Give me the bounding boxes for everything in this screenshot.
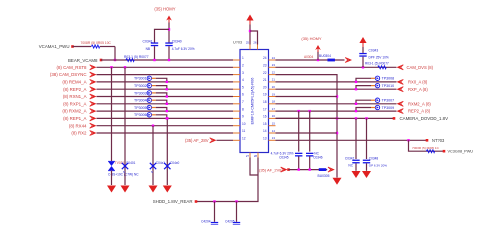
- wire C0402 vertical: [124, 67, 126, 185]
- svg-text:REP2_A (8): REP2_A (8): [408, 109, 431, 114]
- svg-text:15: 15: [272, 122, 276, 126]
- testpoint TP3002 label: [134, 84, 147, 88]
- wire power to top pins: [249, 25, 251, 45]
- wire C0347 vertical: [355, 118, 357, 159]
- U1903 part number (vertical): [251, 78, 255, 125]
- tvs TV0311 ref label: [115, 161, 126, 165]
- net stub dot BEAR_VCAM8: [100, 59, 103, 62]
- svg-text:TP3003: TP3003: [134, 91, 147, 95]
- wire RXM2_A to U1903 pin 8: [97, 110, 234, 112]
- resistor R0307: [378, 66, 386, 69]
- junction TP3006: [166, 117, 168, 119]
- junction TP3002: [166, 88, 168, 90]
- capacitor C0403 NC label: [151, 170, 153, 174]
- testpoint TP3009: [375, 105, 379, 109]
- svg-text:19: 19: [263, 93, 267, 97]
- wire C0347 to ground: [355, 163, 357, 170]
- wire AF_2V8 rail: [289, 169, 328, 171]
- testpoint TP3010: [375, 83, 379, 87]
- wire pin13 to NT: [276, 139, 428, 141]
- capacitor C0347: [352, 160, 359, 164]
- svg-text:(8) RX44: (8) RX44: [69, 123, 87, 128]
- port arrow REP2_A: [90, 87, 97, 92]
- port arrow RXM2_A: [397, 101, 404, 106]
- wire RXN1_A to U1903 pin 6: [97, 96, 234, 98]
- wire pin27 down: [250, 158, 258, 176]
- junction C0346 tap: [309, 110, 311, 112]
- svg-text:TP3009: TP3009: [382, 106, 395, 110]
- svg-text:4.7uF 6.3V 20%: 4.7uF 6.3V 20%: [172, 47, 195, 51]
- net label NT?03: [432, 138, 445, 143]
- svg-text:20: 20: [272, 85, 276, 89]
- port arrow REP2_A: [397, 108, 404, 113]
- wire C0348 to ground: [366, 163, 368, 170]
- ferrite BU0304 ref label red: [304, 55, 313, 59]
- testpoint TP3007 label: [382, 99, 395, 103]
- capacitor C0403 (NC, crossed): [150, 163, 156, 169]
- svg-text:(8) REP2_A: (8) REP2_A: [63, 87, 86, 92]
- wire TP3004 stub: [152, 99, 156, 101]
- capacitor C0346 ref label: [313, 156, 323, 160]
- junction TP3008: [355, 81, 357, 83]
- port label RX2: [71, 131, 87, 136]
- svg-text:VC3G08_PWU: VC3G08_PWU: [448, 150, 474, 154]
- junction TP3009: [355, 110, 357, 112]
- svg-text:9: 9: [242, 115, 244, 119]
- capacitor C4204 ref label: [201, 219, 211, 223]
- U1903 left pin stubs and numbers 1-12: [233, 56, 246, 140]
- wire pin row RXP_A: [276, 88, 397, 90]
- wire TP3007 stub: [371, 99, 375, 101]
- svg-text:C0345: C0345: [279, 156, 289, 160]
- svg-text:EMIF10-CM05FL2(A5)-R06: EMIF10-CM05FL2(A5)-R06: [251, 78, 255, 125]
- resistor R0302 value label: [124, 55, 149, 59]
- svg-text:C04x1: C04x1: [156, 161, 165, 165]
- port label RXN1_A: [63, 94, 87, 99]
- wire BEAR_VCAM8 rail: [101, 59, 233, 61]
- port arrow AF_2V8: [281, 167, 288, 172]
- svg-text:GP 6.3V 20%: GP 6.3V 20%: [369, 163, 387, 167]
- svg-text:(35) AF_28V: (35) AF_28V: [185, 138, 209, 143]
- wire R0301 to corner: [100, 46, 115, 48]
- junction C0404 tap: [166, 117, 168, 119]
- wire C0343 to rail: [362, 57, 364, 68]
- svg-text:BU0304: BU0304: [319, 54, 331, 58]
- net label BEAR_VCAM8: [68, 58, 98, 63]
- capacitor C0340 value label: [172, 47, 195, 51]
- svg-text:NT?03: NT?03: [432, 138, 445, 143]
- svg-text:C04x0: C04x0: [170, 161, 179, 165]
- op-amp U1903 body: [240, 50, 269, 153]
- svg-text:18: 18: [263, 100, 267, 104]
- wire TP3001 stub: [152, 77, 156, 79]
- svg-text:C0347: C0347: [345, 156, 355, 160]
- net label SHDD_1.8IV_REAR: [153, 199, 193, 204]
- wire CAM_RST8 to U1903 pin 2: [97, 66, 234, 68]
- testpoint TP3001 label: [134, 77, 147, 81]
- testpoint TP3010 label: [382, 84, 395, 88]
- capacitor C0348 value label: [369, 163, 387, 167]
- tvs TV0311 part label: [126, 161, 136, 165]
- wire RXP1_A to U1903 pin 7: [97, 103, 234, 105]
- port label CAM_DSYNC: [50, 72, 87, 77]
- port arrow CAM_RST8: [90, 65, 97, 70]
- svg-text:8: 8: [242, 107, 244, 111]
- wire TP3006 stub: [152, 114, 156, 116]
- port arrow RXP1_A: [90, 101, 97, 106]
- junction C0345 on AF rail: [298, 168, 300, 170]
- wire TP3003 stub: [152, 92, 156, 94]
- power arrow HOMY right: [315, 45, 321, 52]
- port label RXM2_A: [62, 109, 86, 114]
- svg-text:7003R (5) 0R05 1C: 7003R (5) 0R05 1C: [412, 146, 440, 150]
- wire TP3010 stub: [371, 85, 375, 87]
- capacitor C0343 value label: [369, 56, 389, 60]
- wire TP3004 hook: [156, 100, 167, 104]
- port arrow RXP_A: [397, 87, 404, 92]
- power flag (35) HOMY label: [154, 7, 175, 12]
- wire C0340 to rail: [168, 46, 170, 60]
- svg-text:7: 7: [242, 100, 244, 104]
- junction C0402 tap: [124, 66, 126, 68]
- junction pin14 on ground rail: [336, 132, 338, 134]
- svg-text:RXP_A (8): RXP_A (8): [408, 87, 428, 92]
- wire C0346 to AF rail: [309, 157, 311, 170]
- svg-text:10: 10: [242, 122, 246, 126]
- svg-text:RX0_A (8): RX0_A (8): [408, 80, 428, 85]
- testpoint TP3003 label: [134, 91, 147, 95]
- capacitor C0346: [306, 153, 313, 157]
- wire C0346 vertical: [309, 111, 311, 152]
- svg-text:28: 28: [254, 154, 258, 158]
- junction C0345 tap: [298, 110, 300, 112]
- resistor R0308 value label: [412, 146, 440, 150]
- port arrow CAM_DVS: [397, 65, 404, 70]
- capacitor C0340: [165, 42, 172, 46]
- wire pin row REP2_A: [276, 110, 397, 112]
- capacitor C0341 NC label: [146, 47, 150, 51]
- svg-text:22: 22: [263, 71, 267, 75]
- junction TP3003: [166, 95, 168, 97]
- junction TP3005: [166, 110, 168, 112]
- wire pin19 to ground rail: [276, 96, 338, 98]
- junction C0346 on AF rail: [309, 168, 311, 170]
- wire TP3008 hook: [356, 78, 371, 82]
- svg-text:6: 6: [242, 93, 244, 97]
- testpoint TP3005: [147, 105, 151, 109]
- capacitor C0346 NC label: [314, 151, 319, 155]
- junction pin19 on ground rail: [336, 95, 338, 97]
- capacitor C0341: [151, 42, 158, 46]
- svg-text:R03-1 (5) R0077: R03-1 (5) R0077: [124, 55, 149, 59]
- svg-text:BU0305: BU0305: [318, 174, 330, 178]
- svg-text:20: 20: [263, 85, 267, 89]
- capacitor C0348 ref label: [369, 156, 379, 160]
- port label REP2_A: [408, 109, 431, 114]
- port arrow RX0_A: [397, 79, 404, 84]
- svg-text:15: 15: [263, 122, 267, 126]
- wire pin15 DOVDD: [276, 117, 395, 119]
- wire pin14 to ground rail: [276, 132, 338, 134]
- tvs TV0311 value label: [108, 173, 139, 177]
- svg-text:C0348: C0348: [369, 156, 379, 160]
- junction top pin branch: [249, 30, 251, 32]
- wire pin row RX0_A: [276, 81, 397, 83]
- wire pin28 down to shield rail: [196, 158, 258, 202]
- capacitor C0341 ref label: [143, 40, 153, 44]
- capacitor C0345 value label: [271, 151, 294, 155]
- svg-text:(8) REP1_A: (8) REP1_A: [63, 116, 86, 121]
- wire C0404 vertical: [166, 118, 168, 185]
- capacitor C0343 ref label: [369, 48, 379, 52]
- svg-text:C0340: C0340: [172, 40, 182, 44]
- power arrow above C0343: [359, 37, 366, 47]
- svg-text:TP3006: TP3006: [134, 113, 147, 117]
- svg-text:C0346: C0346: [313, 156, 323, 160]
- svg-text:23: 23: [263, 64, 267, 68]
- svg-text:CAM_DVS (8): CAM_DVS (8): [407, 65, 434, 70]
- junction C0343: [362, 66, 364, 68]
- svg-text:4: 4: [242, 78, 244, 82]
- ferrite bead BU0304: [327, 59, 335, 62]
- svg-text:13: 13: [272, 136, 276, 140]
- testpoint TP3007: [375, 98, 379, 102]
- testpoint TP3008 label: [382, 77, 395, 81]
- resistor R0307 value label: [365, 62, 389, 66]
- junction C0348 tap: [365, 117, 367, 119]
- svg-text:(8) RXM2_A: (8) RXM2_A: [62, 109, 86, 114]
- wire pin16 to ground rail: [276, 117, 338, 119]
- wire TP3003 hook: [156, 93, 167, 97]
- svg-text:N: N: [123, 170, 125, 174]
- svg-text:16: 16: [272, 114, 276, 118]
- svg-text:DPF 25V 10%: DPF 25V 10%: [369, 56, 389, 60]
- wire VCAMA1_PWU to R0301: [73, 46, 92, 48]
- svg-text:11: 11: [242, 129, 246, 133]
- power label (35) HOMY right: [301, 36, 322, 41]
- testpoint TP3001: [147, 76, 151, 80]
- svg-text:27: 27: [246, 154, 250, 158]
- net label VC3G08_PWU: [448, 150, 474, 154]
- svg-text:TP3007: TP3007: [382, 99, 395, 103]
- capacitor C0404 (NC, crossed): [164, 163, 170, 169]
- svg-text:TP3002: TP3002: [134, 84, 147, 88]
- wire TP3009 hook: [356, 108, 371, 112]
- net label CAMERA_DOVDD_1.8V: [400, 116, 449, 121]
- wire C0343 to power: [362, 47, 364, 53]
- wire C0341 to rail: [154, 46, 156, 60]
- wire power arrow to junction: [168, 23, 170, 44]
- ferrite BU0304 label: [319, 54, 331, 58]
- port label REP1_A: [63, 116, 86, 121]
- wire pin22 to ground rail: [276, 75, 338, 178]
- junction TVS tap: [110, 66, 112, 68]
- port label CAM_DVS: [407, 65, 434, 70]
- wire pin24 to port: [276, 59, 345, 61]
- resistor R0308: [426, 150, 434, 153]
- svg-text:19: 19: [272, 92, 276, 96]
- capacitor C4205 ref label: [225, 219, 235, 223]
- junction C0340 on rail: [168, 59, 170, 61]
- testpoint TP3006 label: [134, 113, 147, 117]
- junction above C0340: [168, 28, 170, 30]
- net stub dot VC3G08_PWU: [443, 150, 446, 153]
- junction C0403 tap: [152, 125, 154, 127]
- port label RXP_A: [408, 87, 428, 92]
- ground under TV0311: [107, 186, 116, 193]
- capacitor C4205: [233, 222, 240, 226]
- svg-text:N: N: [151, 170, 153, 174]
- port label RXP1_A: [63, 101, 86, 106]
- resistor R0301: [91, 45, 99, 48]
- power arrow above U1903: [246, 15, 253, 25]
- svg-text:24: 24: [263, 56, 267, 60]
- port arrow pin24 out: [345, 57, 352, 62]
- junction C0347 tap: [355, 117, 357, 119]
- U1903 bottom pin stubs and numbers: [246, 153, 258, 158]
- svg-text:TP3005: TP3005: [134, 106, 147, 110]
- wire C0345 to AF rail: [298, 157, 300, 170]
- svg-text:(8) CAM_RST8: (8) CAM_RST8: [56, 65, 87, 70]
- port label (35) AF_2V8: [259, 167, 282, 172]
- svg-text:BEAR_VCAM8: BEAR_VCAM8: [68, 58, 98, 63]
- testpoint TP3004 label: [134, 99, 147, 103]
- capacitor C0343: [359, 53, 366, 57]
- capacitor C4204: [211, 222, 218, 226]
- net stub dot DOVDD: [393, 117, 396, 120]
- wire TVS vertical: [111, 67, 113, 161]
- capacitor C0402 (NC, crossed): [122, 163, 128, 169]
- port label RX0_A: [408, 80, 428, 85]
- svg-text:13: 13: [263, 137, 267, 141]
- port label (35) AF_28V: [185, 138, 209, 143]
- svg-text:24: 24: [272, 56, 276, 60]
- capacitor C0404 ref label: [170, 161, 179, 165]
- svg-text:NB: NB: [146, 47, 150, 51]
- U1903 ref label: [233, 41, 242, 45]
- wire TP3008 stub: [371, 77, 375, 79]
- U1903 top pin stubs and numbers: [246, 41, 258, 50]
- wire HOMY arrow riser: [317, 52, 319, 61]
- wire AF_28V to U1903 pin 12: [217, 139, 234, 141]
- junction at R0301 drop: [114, 59, 116, 61]
- ground under C0403: [149, 186, 158, 193]
- wire TP3002 hook: [156, 86, 167, 90]
- junction NT drop: [407, 139, 409, 141]
- svg-text:(8) RXP1_A: (8) RXP1_A: [63, 101, 86, 106]
- svg-text:25: 25: [246, 41, 250, 45]
- port label RXM2_A: [408, 101, 431, 106]
- testpoint TP3004: [147, 98, 151, 102]
- net label VCAMA1_PWU: [39, 44, 70, 49]
- wire corner down to BEAR_VCAM8 net: [114, 47, 116, 61]
- capacitor C0403 ref label: [156, 161, 165, 165]
- svg-text:R03-1 (5) R0077: R03-1 (5) R0077: [365, 62, 389, 66]
- svg-text:CAMERA_DOVDD_1.8V: CAMERA_DOVDD_1.8V: [400, 116, 449, 121]
- svg-text:(8) REM4_A: (8) REM4_A: [62, 80, 86, 85]
- svg-text:RXM2_A (8): RXM2_A (8): [408, 101, 431, 106]
- junction pin16 on ground rail: [336, 117, 338, 119]
- testpoint TP3002: [147, 83, 151, 87]
- testpoint TP3009 label: [382, 106, 395, 110]
- wire C0348 vertical: [366, 118, 368, 159]
- net stub dot SHIELD: [195, 200, 198, 203]
- wire branch to pin 26: [250, 31, 258, 45]
- resistor R0301 value label: [81, 41, 112, 45]
- net stub dot VCAMA1_PWU: [71, 45, 74, 48]
- wire TP3001 hook: [156, 78, 167, 82]
- wire TP3002 stub: [152, 85, 156, 87]
- port arrow REM4_A: [90, 79, 97, 84]
- wire TP3009 stub: [371, 107, 375, 109]
- testpoint TP3005 label: [134, 106, 147, 110]
- svg-text:C4204: C4204: [201, 219, 211, 223]
- port label CAM_RST8: [56, 65, 87, 70]
- svg-text:C4205: C4205: [225, 219, 235, 223]
- ground under C0402: [121, 186, 130, 193]
- net stub dot AF_2V8: [287, 168, 290, 171]
- port label REM4_A: [62, 80, 86, 85]
- junction TP3010: [355, 88, 357, 90]
- port label RX44: [69, 123, 87, 128]
- wire TP3006 hook: [156, 115, 167, 119]
- svg-text:3: 3: [242, 71, 244, 75]
- svg-text:A0304: A0304: [304, 55, 313, 59]
- ferrite BU0305 label: [318, 174, 330, 178]
- port label REP2_A: [63, 87, 86, 92]
- svg-text:C0343: C0343: [369, 48, 379, 52]
- port arrow CAM_DSYNC: [90, 72, 97, 77]
- wire C0345 vertical: [298, 111, 300, 152]
- port arrow AF rail out: [328, 167, 335, 172]
- junction C0341 on rail: [153, 59, 155, 61]
- svg-text:TP3004: TP3004: [134, 99, 147, 103]
- wire REP2_A to U1903 pin 5: [97, 88, 234, 90]
- wire TP3010 hook: [356, 86, 371, 90]
- svg-text:17: 17: [272, 107, 276, 111]
- capacitor C0347 ref label: [345, 156, 355, 160]
- testpoint TP3006: [147, 113, 151, 117]
- U1903 right pin stubs and numbers 24-13: [263, 56, 276, 141]
- junction TP3004: [166, 103, 168, 105]
- wire RX44 to U1903 pin 10: [97, 125, 234, 127]
- svg-text:2: 2: [242, 64, 244, 68]
- svg-text:23: 23: [272, 63, 276, 67]
- wire pin row RXM2_A: [276, 103, 397, 105]
- junction C4205 tap: [235, 200, 237, 202]
- junction C4204 tap: [213, 200, 215, 202]
- ground under C0348: [362, 171, 371, 178]
- capacitor C0348: [363, 160, 370, 164]
- capacitor C0345: [295, 153, 302, 157]
- svg-text:U?03: U?03: [233, 41, 242, 45]
- wire TP3005 stub: [152, 107, 156, 109]
- svg-text:18: 18: [272, 100, 276, 104]
- net stub dot NT: [426, 139, 429, 142]
- junction HOMY arrow: [317, 59, 319, 61]
- wire C4204 vertical: [214, 202, 216, 222]
- testpoint TP3003: [147, 91, 151, 95]
- svg-text:VCAMA1_PWU: VCAMA1_PWU: [39, 44, 70, 49]
- capacitor C0347 NC label: [348, 163, 353, 167]
- port arrow REP1_A: [90, 116, 97, 121]
- testpoint TP3008: [375, 76, 379, 80]
- tvs diode TV0311: [108, 161, 115, 170]
- svg-text:14: 14: [263, 129, 267, 133]
- capacitor C0340 ref label: [172, 40, 182, 44]
- svg-text:NC: NC: [348, 163, 353, 167]
- svg-text:14: 14: [272, 129, 276, 133]
